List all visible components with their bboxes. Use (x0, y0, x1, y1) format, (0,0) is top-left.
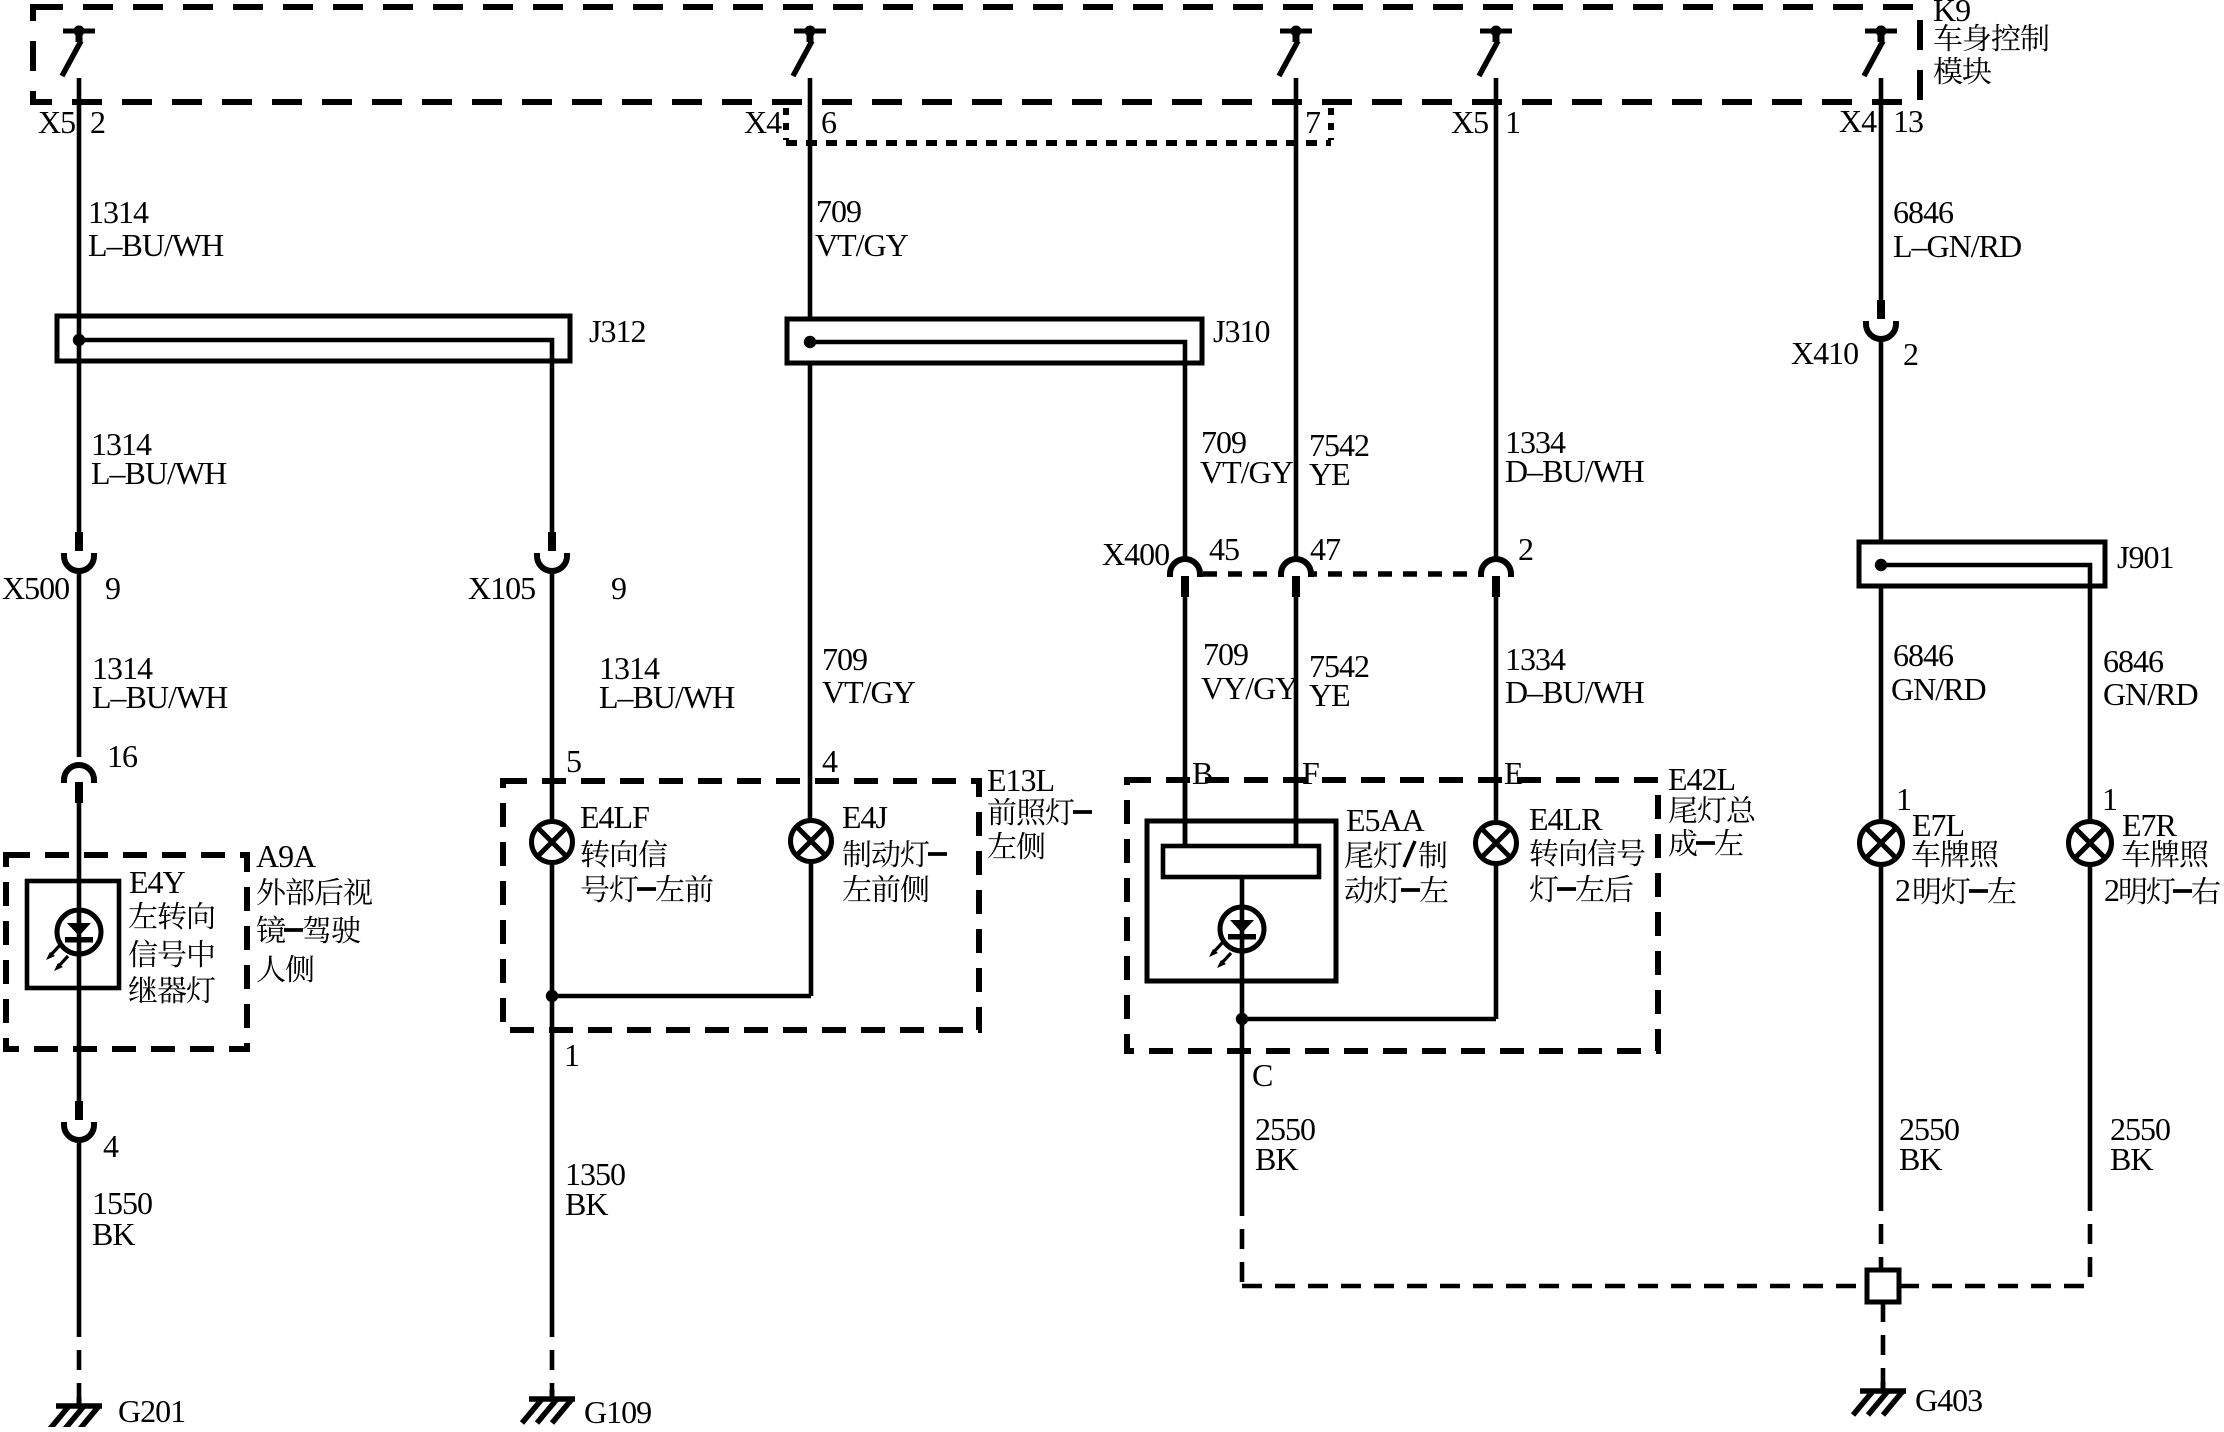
svg-text:BK: BK (565, 1186, 608, 1222)
svg-text:4: 4 (822, 743, 838, 779)
label E13L name line2 (988, 832, 1016, 858)
wire pin F into E5AA (1294, 780, 1299, 846)
wire X400-45 to E5AA pin B (1183, 596, 1188, 846)
svg-text:4: 4 (103, 1128, 119, 1164)
svg-text:6846: 6846 (2103, 643, 2164, 679)
label E4LF name line1 (581, 840, 609, 868)
label E4J name line2 (843, 875, 871, 901)
wire 2550 BK E7R dashed (2088, 1191, 2093, 1286)
svg-text:13: 13 (1893, 103, 1923, 139)
svg-text:X5: X5 (38, 104, 75, 140)
wire 1350 BK dashed section (550, 1317, 555, 1395)
wire E4LR to junction (1494, 863, 1499, 1019)
wire E13L pin1 down (550, 996, 555, 1317)
wire 2550 BK dashed to ground bus (1240, 1196, 1245, 1286)
svg-text:C: C (1252, 1057, 1272, 1093)
wire X400-47 to E5AA pin F (1294, 596, 1299, 846)
wire X400-2 to E4LR pin E (1494, 596, 1499, 822)
wire 6846 L-GN/RD from K9 X4-13 to X410 (1879, 78, 1884, 301)
svg-text:B: B (1192, 755, 1212, 791)
svg-text:709: 709 (822, 641, 867, 677)
LED E4Y (57, 910, 101, 954)
svg-text:L–BU/WH: L–BU/WH (92, 679, 228, 715)
wire X410 to J901 (1879, 340, 1884, 542)
switch contact K9 output at x=1296 (1280, 29, 1312, 34)
svg-text:2: 2 (1903, 336, 1918, 372)
ground G109 (550, 1390, 555, 1399)
label E4Y name line2 (129, 940, 157, 968)
lamp E4LR turn signal rear-left (1476, 823, 1517, 864)
module E42L tail lamp assembly dashed box (1127, 780, 1658, 1051)
label A9A name line3 (257, 955, 285, 982)
svg-text:7: 7 (1305, 104, 1321, 140)
svg-text:1: 1 (1896, 781, 1911, 817)
svg-text:E: E (1504, 755, 1523, 791)
label A9A name line1 (257, 878, 285, 905)
svg-text:1: 1 (1505, 104, 1520, 140)
wire 1550 BK dashed section (77, 1317, 82, 1400)
connector X400 pin 45 (1170, 559, 1200, 577)
connector X400 pin 47 (1281, 559, 1311, 577)
switch contact K9 output at x=810 (794, 29, 826, 34)
svg-text:J901: J901 (2117, 539, 2173, 575)
label E4J name line1 (843, 840, 870, 867)
label E42L name line1 (1669, 796, 1696, 823)
ground bus dashed below square (1881, 1302, 1886, 1384)
svg-text:47: 47 (1310, 531, 1341, 567)
svg-text:J310: J310 (1213, 313, 1269, 349)
svg-text:E42L: E42L (1668, 761, 1735, 797)
wire X105 to E4LF (550, 572, 555, 822)
wire 1314 L-BU/WH J312 to X500 (77, 316, 82, 534)
svg-text:X5: X5 (1451, 104, 1488, 140)
junction dot E13L (546, 990, 558, 1002)
lamp E7R license plate lamp right (2069, 822, 2112, 865)
svg-text:X4: X4 (1839, 103, 1877, 139)
svg-text:2: 2 (1895, 872, 1910, 908)
svg-text:BK: BK (1255, 1141, 1298, 1177)
wire 709 VT/GY from K9 X4-6 to J310 (808, 78, 813, 319)
wire 1314 L-BU/WH from K9 X5-2 to J312 (77, 78, 82, 316)
wire 7542 YE from K9 pin7 to X400-47 (1294, 78, 1299, 557)
connector X400 pin 2 (1481, 559, 1511, 577)
svg-text:E4J: E4J (842, 799, 888, 835)
svg-text:X105: X105 (468, 570, 535, 606)
svg-text:GN/RD: GN/RD (1891, 671, 1986, 707)
wire 2550 BK E7R down (2088, 864, 2093, 1191)
wire 1334 D-BU/WH from K9 X5-1 to X400-2 (1494, 78, 1499, 557)
switch contact K9 output at x=1496 (1480, 29, 1512, 34)
svg-text:G109: G109 (584, 1394, 651, 1427)
svg-text:6: 6 (821, 104, 837, 140)
svg-text:X400: X400 (1102, 536, 1169, 572)
ground bus dashed horizontal right (1899, 1284, 2090, 1289)
connector X410 pin 2 (1877, 300, 1885, 319)
wire J901 branch to E7R (2088, 586, 2093, 822)
LED E5AA (1220, 907, 1264, 951)
svg-text:5: 5 (566, 743, 581, 779)
wire pin C down (1240, 1019, 1245, 1196)
svg-text:2: 2 (90, 104, 105, 140)
lamp E4J brake lamp front-left-side (791, 821, 832, 862)
module E13L headlamp-left dashed box (503, 781, 979, 1030)
svg-text:9: 9 (105, 570, 120, 606)
svg-text:G403: G403 (1915, 1382, 1982, 1418)
wire 1314 L-BU/WH X500 to A9A pin 16 (77, 572, 82, 757)
svg-text:X410: X410 (1791, 335, 1858, 371)
svg-text:1: 1 (2102, 781, 2117, 817)
svg-text:2: 2 (1518, 531, 1533, 567)
junction dot E42L (1236, 1013, 1248, 1025)
label E7R name line2 (2120, 878, 2146, 905)
switch contact K9 output at x=1881 (1865, 29, 1897, 34)
svg-text:E4LR: E4LR (1529, 801, 1603, 837)
wire 709 VT/GY J310 to E4J (808, 363, 813, 821)
wire J310 branch to X400-45 (1183, 363, 1188, 557)
wire E4LF to junction (550, 862, 555, 996)
svg-text:709: 709 (816, 193, 861, 229)
svg-text:E7R: E7R (2122, 807, 2178, 843)
svg-text:VT/GY: VT/GY (822, 674, 916, 710)
label E7L name line2 (1914, 878, 1940, 905)
svg-text:45: 45 (1209, 531, 1239, 567)
module K9 body-control-module dashed box (33, 7, 1920, 102)
svg-text:VY/GY: VY/GY (1201, 670, 1298, 706)
svg-text:9: 9 (611, 570, 626, 606)
svg-text:E5AA: E5AA (1346, 802, 1425, 838)
svg-text:X500: X500 (2, 570, 69, 606)
svg-text:709: 709 (1203, 636, 1248, 672)
splice J901 (1859, 542, 2105, 586)
E5AA inner element (1163, 846, 1319, 877)
label K9 name line2 (1934, 57, 1963, 84)
svg-text:VT/GY: VT/GY (1200, 454, 1294, 490)
wire J901 to E7L (1879, 586, 1884, 822)
svg-text:YE: YE (1309, 456, 1350, 492)
svg-text:2: 2 (2104, 872, 2119, 908)
label E7R name line1 (2122, 840, 2150, 867)
label E5AA name line1 (1345, 841, 1372, 868)
svg-text:BK: BK (2110, 1141, 2153, 1177)
label E4LR name line1 (1530, 839, 1558, 867)
svg-text:L–BU/WH: L–BU/WH (91, 455, 227, 491)
svg-text:D–BU/WH: D–BU/WH (1505, 674, 1645, 710)
svg-text:L–GN/RD: L–GN/RD (1893, 228, 2021, 264)
connector A9A pin 4 (75, 1101, 83, 1120)
wire J312 branch to X105 (550, 361, 555, 534)
svg-text:YE: YE (1309, 677, 1350, 713)
label K9 name line1 (1934, 24, 1962, 51)
svg-text:K9: K9 (1933, 0, 1970, 28)
lamp E5AA tail/brake lamp box (1147, 821, 1336, 981)
svg-text:E4Y: E4Y (129, 864, 186, 900)
connector X400 dashed line (1203, 571, 1479, 577)
wire 2550 BK E7L down (1879, 864, 1884, 1191)
svg-text:BK: BK (1899, 1141, 1942, 1177)
label E4LF name line2 (581, 875, 608, 902)
label A9A name line2 (257, 915, 285, 943)
wire junction E42L horizontal (1242, 1017, 1496, 1022)
svg-text:6846: 6846 (1893, 637, 1954, 673)
wire junction to E4J (552, 994, 811, 999)
svg-text:A9A: A9A (256, 838, 316, 874)
svg-text:1: 1 (564, 1037, 579, 1073)
wire 1550 BK to ground (77, 1141, 82, 1317)
ground bus junction square (1867, 1270, 1899, 1302)
svg-text:VT/GY: VT/GY (815, 227, 909, 263)
svg-text:6846: 6846 (1893, 194, 1954, 230)
svg-text:G201: G201 (118, 1393, 185, 1427)
splice J310 (787, 319, 1202, 363)
label E4LR name line2 (1530, 875, 1558, 902)
switch contact K9 output at x=79 (63, 29, 95, 34)
svg-text:1314: 1314 (88, 194, 149, 230)
svg-text:E7L: E7L (1912, 807, 1964, 843)
label E42L name line2 (1669, 829, 1697, 857)
connector A9A pin 16 (64, 765, 94, 783)
ground G403 (1881, 1382, 1886, 1391)
label E5AA name line2 (1345, 876, 1373, 904)
svg-text:L–BU/WH: L–BU/WH (599, 679, 735, 715)
wire pin B into E5AA (1183, 780, 1188, 846)
svg-text:GN/RD: GN/RD (2103, 676, 2198, 712)
wire E5AA internal (1240, 877, 1245, 1019)
connector X500 pin 9 (75, 532, 83, 551)
label E4Y name line1 (129, 902, 157, 928)
svg-text:L–BU/WH: L–BU/WH (88, 227, 224, 263)
splice J312 (57, 316, 570, 361)
module A9A outside rear-view mirror dashed box (6, 855, 247, 1049)
lamp E7L license plate lamp left (1860, 822, 1903, 865)
svg-text:E4LF: E4LF (580, 799, 649, 835)
label E7L name line1 (1912, 840, 1940, 867)
wire through E4Y (77, 881, 82, 1103)
lamp E4Y left turn signal repeater box (27, 881, 119, 988)
svg-text:16: 16 (107, 738, 138, 774)
svg-text:J312: J312 (589, 313, 645, 349)
label E4Y name line3 (129, 976, 157, 1003)
svg-text:1334: 1334 (1505, 641, 1566, 677)
svg-text:BK: BK (92, 1216, 135, 1252)
wire pin16 to E4Y (77, 800, 82, 881)
svg-text:D–BU/WH: D–BU/WH (1505, 453, 1645, 489)
connector X4 dotted outline (pins 6,7) (783, 108, 789, 140)
svg-text:F: F (1302, 755, 1319, 791)
ground bus dashed horizontal left (1242, 1284, 1867, 1289)
lamp E4LF turn signal front-left (532, 822, 573, 863)
ground G201 (77, 1397, 82, 1406)
label E13L name line1 (988, 798, 1016, 825)
wire 2550 BK E7L dashed (1879, 1191, 1884, 1270)
connector X105 pin 9 (548, 532, 556, 551)
svg-text:X4: X4 (744, 104, 782, 140)
svg-text:E13L: E13L (987, 762, 1054, 798)
